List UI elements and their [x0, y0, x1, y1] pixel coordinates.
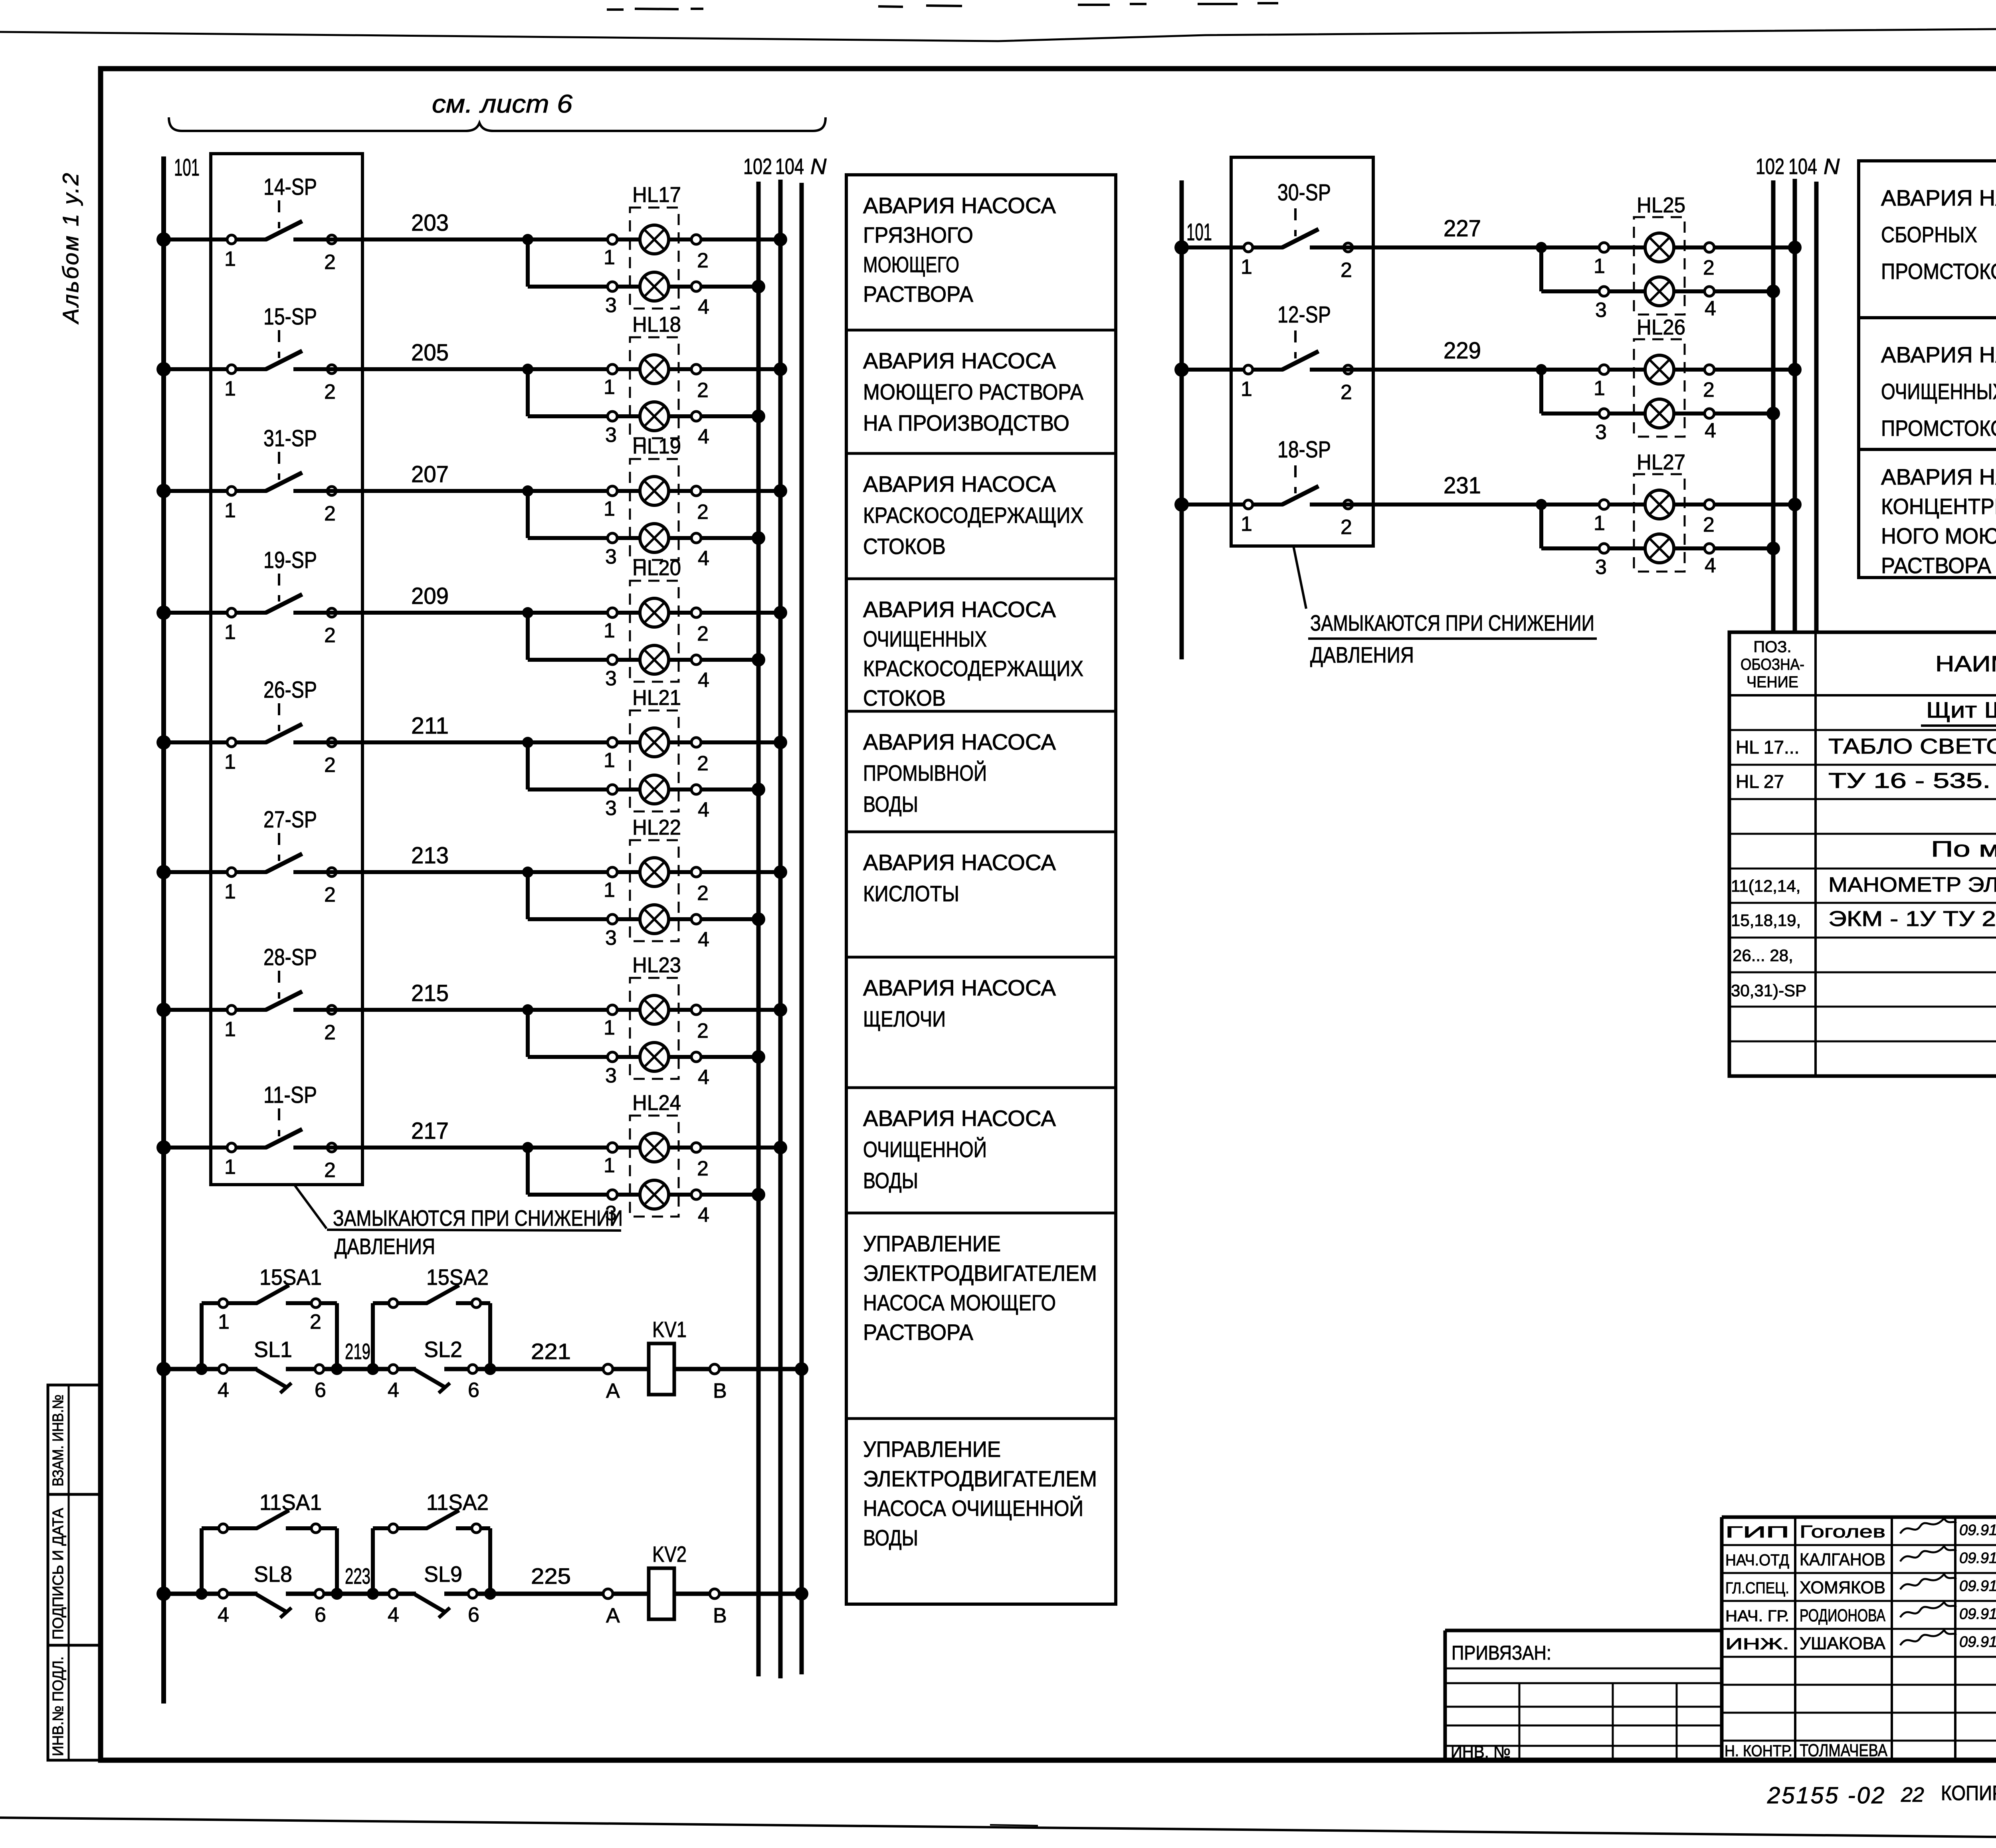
switch 15SA1: [202, 1264, 337, 1334]
svg-text:Н. КОНТР.: Н. КОНТР.: [1725, 1742, 1792, 1760]
table row: 26...28: [1733, 946, 1793, 965]
junction on bus 104 row 217: [774, 1141, 787, 1154]
svg-text:АВАРИЯ НАСОСА: АВАРИЯ НАСОСА: [863, 850, 1056, 875]
svg-text:2: 2: [1341, 516, 1352, 539]
svg-text:HL17: HL17: [632, 183, 681, 207]
pressure switch contact 15-SP: [164, 304, 336, 404]
wire 207: [328, 461, 780, 497]
svg-text:ОЧИЩЕННЫХ: ОЧИЩЕННЫХ: [863, 626, 987, 651]
note: замыкаются при снижении давления (left): [327, 1205, 623, 1259]
junction on bus 101 row 209: [156, 605, 171, 620]
svg-text:HL26: HL26: [1637, 315, 1685, 339]
svg-text:РАСТВОРА: РАСТВОРА: [1881, 553, 1992, 578]
svg-text:РАСТВОРА: РАСТВОРА: [863, 281, 974, 307]
svg-text:ПРОМЫВНОЙ: ПРОМЫВНОЙ: [863, 760, 987, 785]
svg-text:АВАРИЯ НАСОСА: АВАРИЯ НАСОСА: [863, 348, 1056, 373]
svg-text:МОЮЩЕГО: МОЮЩЕГО: [863, 252, 959, 277]
svg-text:ВОДЫ: ВОДЫ: [863, 1525, 918, 1550]
svg-text:1: 1: [224, 377, 236, 400]
svg-text:ПОДПИСЬ И ДАТА: ПОДПИСЬ И ДАТА: [50, 1508, 67, 1640]
svg-text:ЭЛЕКТРОДВИГАТЕЛЕМ: ЭЛЕКТРОДВИГАТЕЛЕМ: [863, 1466, 1097, 1491]
svg-text:217: 217: [411, 1118, 449, 1144]
svg-text:203: 203: [411, 210, 449, 236]
svg-text:6: 6: [315, 1379, 326, 1402]
wire lamp branch lower HL20: [528, 613, 765, 667]
svg-text:4: 4: [388, 1379, 399, 1402]
annotation column (left) frame: [846, 175, 1116, 1604]
svg-text:1: 1: [224, 621, 236, 644]
wire 215: [328, 980, 780, 1015]
svg-text:221: 221: [531, 1339, 571, 1364]
parallel branch frame 1 rung KV2: [196, 1528, 343, 1600]
level switch contact SL8: [218, 1561, 326, 1626]
svg-text:227: 227: [1444, 216, 1481, 241]
junction on bus 104 row 231: [1788, 498, 1802, 511]
switch 11SA2: [373, 1490, 490, 1533]
svg-text:1: 1: [1594, 512, 1605, 535]
labels 102 104 N (left): [743, 154, 827, 179]
wire lamp branch lower HL21: [528, 742, 765, 796]
junction on bus 104 row 227: [1788, 241, 1802, 254]
junction on bus N rung KV1: [795, 1362, 808, 1376]
svg-text:4: 4: [698, 669, 709, 692]
signal lamp HL24: [604, 1091, 709, 1227]
svg-text:3: 3: [605, 423, 617, 447]
svg-text:3: 3: [605, 294, 617, 317]
label Привязан:: [1451, 1642, 1551, 1664]
signal lamp HL22: [604, 815, 709, 951]
svg-text:1: 1: [1594, 255, 1605, 278]
svg-text:3: 3: [605, 667, 617, 690]
svg-text:1: 1: [1594, 377, 1605, 400]
svg-text:АВАРИЯ НАСОСА: АВАРИЯ НАСОСА: [1881, 185, 1996, 210]
svg-text:SL9: SL9: [424, 1561, 462, 1587]
svg-text:ТАБЛО СВЕТОВОЕ ТСБ: ТАБЛО СВЕТОВОЕ ТСБ: [1828, 734, 1996, 758]
svg-text:HL18: HL18: [632, 313, 681, 336]
pressure switch enclosure box (left): [211, 154, 362, 1185]
svg-text:РАСТВОРА: РАСТВОРА: [863, 1320, 974, 1345]
signal lamp HL20: [604, 556, 709, 692]
wire 209: [328, 583, 780, 618]
junction on bus 101 row 213: [156, 865, 171, 879]
svg-text:101: 101: [174, 154, 200, 181]
signal lamp HL19: [604, 434, 709, 570]
svg-text:4: 4: [1705, 554, 1716, 577]
svg-text:2: 2: [697, 501, 709, 524]
junction on bus N rung KV2: [795, 1587, 808, 1601]
annotation text box L10: УПРАВЛЕНИЕ ...: [863, 1436, 1097, 1550]
svg-text:АВАРИЯ НАСОСА: АВАРИЯ НАСОСА: [863, 729, 1056, 754]
svg-text:B: B: [713, 1379, 727, 1403]
svg-text:СТОКОВ: СТОКОВ: [863, 534, 946, 559]
label 101 (left bus): [174, 154, 200, 181]
sidebar label: Взам. инв.№: [50, 1395, 67, 1486]
svg-text:см. лист 6: см. лист 6: [432, 89, 572, 118]
wire lamp branch lower HL19: [528, 491, 765, 545]
svg-text:14-SP: 14-SP: [263, 174, 317, 200]
table row: HL17 Табло световое ТСБ: [1736, 734, 1996, 758]
junction on bus 101 rung KV1: [156, 1362, 171, 1376]
wire rung KV2 main: [164, 1592, 802, 1596]
svg-text:КРАСКОСОДЕРЖАЩИХ: КРАСКОСОДЕРЖАЩИХ: [863, 656, 1083, 681]
scan edge bottom line: [0, 1818, 1996, 1842]
svg-text:231: 231: [1444, 473, 1481, 499]
pressure switch contact 31-SP: [164, 425, 336, 525]
handwritten: 25155-02 22 Копировал: Сырова: [1767, 1782, 1996, 1808]
svg-text:2: 2: [324, 883, 336, 906]
svg-text:НАЧ.ОТД: НАЧ.ОТД: [1725, 1551, 1789, 1569]
svg-text:4: 4: [388, 1603, 399, 1626]
relay coil KV2: [649, 1541, 687, 1619]
svg-text:1: 1: [604, 376, 615, 399]
svg-text:KV1: KV1: [652, 1317, 687, 1342]
level switch contact SL2: [388, 1337, 479, 1402]
annotation text box L8: АВАРИЯ НАСОСА ...: [863, 1106, 1056, 1193]
svg-text:213: 213: [411, 843, 449, 869]
svg-text:12-SP: 12-SP: [1277, 302, 1331, 328]
svg-text:1: 1: [604, 1154, 615, 1177]
svg-text:229: 229: [1444, 338, 1481, 364]
svg-text:1: 1: [1241, 378, 1252, 401]
parallel branch frame 1 rung KV1: [196, 1303, 343, 1375]
junction on bus 104 row 205: [774, 362, 787, 376]
junction on bus 101 rung KV2: [156, 1587, 171, 1601]
junction on bus 101 row 227: [1174, 240, 1189, 255]
svg-text:HL 17...: HL 17...: [1736, 737, 1799, 758]
svg-text:1: 1: [224, 1018, 236, 1041]
svg-text:HL24: HL24: [632, 1091, 681, 1115]
relay coil KV1: [649, 1317, 687, 1395]
svg-text:НАСОСА ОЧИЩЕННОЙ: НАСОСА ОЧИЩЕННОЙ: [863, 1496, 1083, 1521]
svg-text:102: 102: [1756, 154, 1784, 179]
svg-text:2: 2: [697, 882, 709, 905]
svg-text:3: 3: [1595, 556, 1607, 579]
wire lamp branch lower HL22: [528, 872, 765, 926]
junction on bus 101 row 229: [1174, 362, 1189, 377]
signal lamp HL27: [1594, 450, 1716, 579]
terminal A rung KV2: [603, 1589, 620, 1627]
wire 225: [531, 1563, 571, 1589]
svg-text:ПРОМСТОКОВ: ПРОМСТОКОВ: [1881, 416, 1996, 441]
svg-text:2: 2: [1341, 259, 1352, 282]
wire lamp branch lower HL27: [1541, 505, 1780, 555]
pressure switch contact 14-SP: [164, 174, 336, 274]
svg-text:HL22: HL22: [632, 815, 681, 839]
svg-text:ВОДЫ: ВОДЫ: [863, 1168, 918, 1193]
svg-text:223: 223: [345, 1563, 370, 1589]
annotation text box L6: АВАРИЯ НАСОСА ...: [863, 850, 1056, 906]
junction on bus 101 row 203: [156, 232, 171, 247]
svg-text:МАНОМЕТР ЭЛЕКТРОКОНТАКТНЫЙ: МАНОМЕТР ЭЛЕКТРОКОНТАКТНЫЙ: [1828, 873, 1996, 896]
svg-text:ИНВ. №: ИНВ. №: [1451, 1742, 1511, 1762]
junction on bus 101 row 207: [156, 484, 171, 498]
signature row ГЛ.СПЕЦ. ХОМЯКОВ: [1725, 1574, 1996, 1597]
scan edge top line: [0, 3, 1996, 41]
signature row ГИП Гоголев: [1725, 1518, 1996, 1541]
svg-text:B: B: [713, 1604, 727, 1627]
svg-text:АВАРИЯ НАСОСА: АВАРИЯ НАСОСА: [863, 975, 1056, 1000]
wire 203: [328, 210, 780, 245]
annotation text box L1: АВАРИЯ НАСОСА ...: [863, 193, 1056, 307]
svg-text:1: 1: [604, 497, 615, 520]
junction on bus 101 row 215: [156, 1003, 171, 1017]
svg-text:1: 1: [224, 880, 236, 903]
svg-text:НАСОСА МОЮЩЕГО: НАСОСА МОЮЩЕГО: [863, 1290, 1056, 1315]
svg-text:09.91: 09.91: [1959, 1606, 1996, 1622]
svg-text:2: 2: [310, 1310, 321, 1334]
svg-text:УПРАВЛЕНИЕ: УПРАВЛЕНИЕ: [863, 1231, 1001, 1256]
wire 227: [1345, 216, 1795, 253]
svg-text:УШАКОВА: УШАКОВА: [1800, 1634, 1886, 1653]
svg-text:2: 2: [1703, 256, 1715, 279]
svg-text:3: 3: [1595, 299, 1607, 322]
junction on bus 104 row 207: [774, 484, 787, 498]
svg-text:1: 1: [1241, 512, 1252, 536]
svg-text:ИНЖ.: ИНЖ.: [1725, 1635, 1789, 1653]
annotation text box L2: АВАРИЯ НАСОСА ...: [863, 348, 1084, 435]
pressure switch contact 11-SP: [164, 1082, 336, 1182]
svg-text:N: N: [810, 154, 827, 179]
junction on bus 101 row 205: [156, 362, 171, 376]
svg-text:ДАВЛЕНИЯ: ДАВЛЕНИЯ: [1310, 642, 1414, 667]
svg-text:ПРОМСТОКОВ: ПРОМСТОКОВ: [1881, 259, 1996, 284]
parallel branch frame 2 rung KV2: [367, 1528, 496, 1600]
svg-text:18-SP: 18-SP: [1277, 437, 1331, 463]
wire lamp branch lower HL17: [528, 239, 765, 293]
svg-text:3: 3: [605, 926, 617, 950]
label Инв. №: [1451, 1742, 1511, 1762]
svg-text:ЗАМЫКАЮТСЯ ПРИ СНИЖЕНИИ: ЗАМЫКАЮТСЯ ПРИ СНИЖЕНИИ: [1310, 610, 1594, 635]
svg-text:4: 4: [698, 295, 709, 319]
svg-text:2: 2: [324, 502, 336, 525]
level switch contact SL9: [388, 1561, 479, 1626]
signal lamp HL23: [604, 953, 709, 1089]
junction on bus 104 row 203: [774, 233, 787, 246]
svg-text:11-SP: 11-SP: [263, 1082, 317, 1108]
svg-text:HL20: HL20: [632, 556, 681, 580]
title block signature table grid: [1722, 1517, 1996, 1760]
svg-text:211: 211: [411, 713, 449, 739]
table row: Щит ЩА2: [1921, 697, 1996, 726]
wire lamp branch lower HL24: [528, 1148, 765, 1201]
wire 231: [1345, 473, 1795, 510]
wire 217: [328, 1118, 780, 1153]
svg-text:6: 6: [315, 1603, 326, 1626]
table row: Манометр электроконтактный: [1731, 873, 1996, 896]
svg-text:АВАРИЯ НАСОСА: АВАРИЯ НАСОСА: [1881, 342, 1996, 367]
svg-text:1: 1: [604, 619, 615, 642]
svg-text:НОГО МОЮЩЕГО: НОГО МОЮЩЕГО: [1881, 523, 1996, 548]
svg-text:2: 2: [324, 754, 336, 777]
svg-text:2: 2: [1703, 513, 1715, 536]
wire lamp branch lower HL25: [1541, 247, 1780, 298]
annotation text box L3: АВАРИЯ НАСОСА ...: [863, 471, 1083, 559]
svg-text:УПРАВЛЕНИЕ: УПРАВЛЕНИЕ: [863, 1436, 1001, 1462]
svg-text:2: 2: [697, 752, 709, 775]
annotation text box L9: УПРАВЛЕНИЕ ...: [863, 1231, 1097, 1345]
svg-text:15-SP: 15-SP: [263, 304, 317, 330]
svg-text:31-SP: 31-SP: [263, 425, 317, 451]
svg-text:6: 6: [468, 1379, 479, 1402]
svg-text:ОБОЗНА-: ОБОЗНА-: [1741, 656, 1804, 673]
svg-text:22: 22: [1901, 1783, 1924, 1806]
svg-text:2: 2: [324, 380, 336, 404]
parts list table frame: [1729, 632, 1996, 1076]
svg-text:Щит ЩА2: Щит ЩА2: [1926, 697, 1996, 722]
junction on bus 101 row 217: [156, 1140, 171, 1155]
svg-text:2: 2: [697, 1157, 709, 1180]
note: см. лист 6: [432, 89, 572, 118]
wire lamp branch lower HL26: [1541, 370, 1780, 420]
annotation text box L5: АВАРИЯ НАСОСА ...: [863, 729, 1056, 817]
svg-text:HL23: HL23: [632, 953, 681, 977]
annotation text box R3: АВАРИЯ НАСОСА ...: [1881, 464, 1996, 578]
svg-text:КОПИРОВАЛ: СЫРОВА, Спрос.: КОПИРОВАЛ: СЫРОВА, Спрос.: [1941, 1782, 1996, 1805]
svg-text:1: 1: [224, 247, 236, 271]
terminal A rung KV1: [603, 1364, 620, 1403]
svg-text:HL21: HL21: [632, 686, 681, 710]
album note: Альбом 1 у.2: [58, 171, 83, 324]
svg-text:КАЛГАНОВ: КАЛГАНОВ: [1800, 1550, 1885, 1569]
svg-text:ГРЯЗНОГО: ГРЯЗНОГО: [863, 222, 973, 247]
svg-text:28-SP: 28-SP: [263, 944, 317, 970]
svg-text:КОНЦЕНТРИРОВАН-: КОНЦЕНТРИРОВАН-: [1881, 494, 1996, 519]
svg-text:4: 4: [698, 425, 709, 448]
svg-text:30,31)-SP: 30,31)-SP: [1731, 981, 1806, 1000]
svg-text:27-SP: 27-SP: [263, 807, 317, 833]
svg-text:A: A: [606, 1379, 620, 1403]
svg-text:KV2: KV2: [652, 1541, 687, 1567]
svg-text:15SA2: 15SA2: [426, 1264, 489, 1290]
svg-text:1: 1: [1241, 255, 1252, 279]
svg-text:HL19: HL19: [632, 434, 681, 458]
wire 213: [328, 843, 780, 878]
svg-text:26-SP: 26-SP: [263, 677, 317, 703]
svg-text:КРАСКОСОДЕРЖАЩИХ: КРАСКОСОДЕРЖАЩИХ: [863, 503, 1083, 528]
brace over buses: [169, 117, 826, 131]
svg-text:SL1: SL1: [254, 1337, 292, 1362]
svg-text:2: 2: [697, 622, 709, 645]
svg-text:КИСЛОТЫ: КИСЛОТЫ: [863, 881, 959, 906]
svg-text:ДАВЛЕНИЯ: ДАВЛЕНИЯ: [335, 1234, 435, 1259]
svg-text:По месту: По месту: [1931, 836, 1996, 861]
svg-text:4: 4: [1705, 297, 1716, 320]
signature row НАЧ. ГР. РОДИОНОВА: [1725, 1602, 1996, 1625]
pressure switch contact 30-SP: [1182, 180, 1352, 282]
svg-text:2: 2: [324, 624, 336, 647]
svg-text:2: 2: [324, 1159, 336, 1182]
table header: Наименование: [1935, 651, 1996, 676]
svg-text:РОДИОНОВА: РОДИОНОВА: [1800, 1606, 1885, 1625]
svg-text:НАИМЕНОВАНИЕ: НАИМЕНОВАНИЕ: [1935, 651, 1996, 676]
svg-text:N: N: [1824, 154, 1840, 179]
table row: По месту: [1931, 836, 1996, 861]
svg-text:4: 4: [698, 798, 709, 821]
wire lamp branch lower HL18: [528, 369, 765, 423]
svg-text:4: 4: [698, 1203, 709, 1227]
svg-text:219: 219: [345, 1339, 370, 1364]
annotation column (right) frame: [1859, 161, 1996, 578]
svg-text:225: 225: [531, 1563, 571, 1589]
pressure switch contact 12-SP: [1182, 302, 1352, 404]
annotation text box L4: АВАРИЯ НАСОСА ...: [863, 597, 1083, 710]
switch 11SA1: [202, 1490, 337, 1533]
svg-text:НАЧ. ГР.: НАЧ. ГР.: [1725, 1607, 1789, 1625]
svg-text:АВАРИЯ НАСОСА: АВАРИЯ НАСОСА: [863, 193, 1056, 218]
svg-text:1: 1: [604, 749, 615, 772]
wire 211: [328, 713, 780, 748]
svg-text:ТОЛМАЧЕВА: ТОЛМАЧЕВА: [1800, 1741, 1888, 1760]
signature row Н.КОНТР. Толмачева: [1725, 1741, 1888, 1760]
svg-text:101: 101: [1186, 219, 1212, 245]
svg-text:15SA1: 15SA1: [259, 1264, 322, 1290]
svg-text:3: 3: [605, 797, 617, 820]
svg-text:2: 2: [697, 379, 709, 402]
label 101 (right bus): [1186, 219, 1212, 245]
wire rung KV1 main: [164, 1367, 802, 1371]
svg-text:АВАРИЯ НАСОСА: АВАРИЯ НАСОСА: [863, 471, 1056, 497]
svg-text:09.91: 09.91: [1959, 1522, 1996, 1539]
sidebar frame boxes: [48, 1385, 101, 1760]
buses 102 104 N (right): [1773, 179, 1816, 631]
svg-text:09.91: 09.91: [1959, 1634, 1996, 1650]
junction on bus 104 row 213: [774, 865, 787, 879]
terminal B rung KV1: [710, 1364, 727, 1403]
svg-text:SL8: SL8: [254, 1561, 292, 1587]
svg-text:ОЧИЩЕННОЙ: ОЧИЩЕННОЙ: [863, 1137, 987, 1162]
pressure switch contact 18-SP: [1182, 437, 1352, 539]
svg-text:2: 2: [1703, 378, 1715, 402]
svg-text:2: 2: [697, 249, 709, 272]
svg-text:3: 3: [605, 1064, 617, 1087]
svg-text:HL27: HL27: [1637, 450, 1685, 474]
table row: 30,31)-SP: [1731, 981, 1806, 1000]
svg-text:ОЧИЩЕННЫХ: ОЧИЩЕННЫХ: [1881, 379, 1996, 404]
labels 102 104 N (right): [1756, 154, 1840, 179]
svg-text:ИНВ.№ ПОДЛ.: ИНВ.№ ПОДЛ.: [50, 1656, 67, 1756]
svg-text:1: 1: [224, 1155, 236, 1179]
svg-text:215: 215: [411, 980, 449, 1006]
svg-text:6: 6: [468, 1603, 479, 1626]
wire lamp branch lower HL23: [528, 1010, 765, 1064]
signal lamp HL18: [604, 313, 709, 448]
junction on bus 104 row 209: [774, 606, 787, 619]
svg-text:1: 1: [604, 246, 615, 269]
svg-text:НА ПРОИЗВОДСТВО: НА ПРОИЗВОДСТВО: [863, 410, 1069, 435]
svg-text:ВЗАМ. ИНВ.№: ВЗАМ. ИНВ.№: [50, 1395, 67, 1486]
signal lamp HL17: [604, 183, 709, 319]
svg-text:3: 3: [1595, 421, 1607, 444]
svg-text:АВАРИЯ НАСОСА: АВАРИЯ НАСОСА: [863, 1106, 1056, 1131]
svg-text:ЩЕЛОЧИ: ЩЕЛОЧИ: [863, 1006, 946, 1031]
signal lamp HL21: [604, 686, 709, 821]
svg-text:SL2: SL2: [424, 1337, 462, 1362]
svg-text:104: 104: [1788, 154, 1817, 179]
svg-text:HL 27: HL 27: [1736, 771, 1784, 792]
signature row НАЧ.ОТД КАЛГАНОВ: [1725, 1546, 1996, 1569]
svg-text:30-SP: 30-SP: [1277, 180, 1331, 206]
annotation text box R1: АВАРИЯ НАСОСА ...: [1881, 185, 1996, 284]
svg-text:104: 104: [775, 154, 804, 179]
svg-text:ГЛ.СПЕЦ.: ГЛ.СПЕЦ.: [1725, 1579, 1789, 1597]
svg-text:A: A: [606, 1604, 620, 1627]
svg-text:АВАРИЯ НАСОСА: АВАРИЯ НАСОСА: [1881, 464, 1996, 489]
signature row ИНЖ. УШАКОВА: [1725, 1630, 1996, 1653]
svg-text:ГИП: ГИП: [1725, 1524, 1789, 1541]
svg-text:1: 1: [604, 1016, 615, 1039]
node 219: [345, 1339, 370, 1364]
pressure switch enclosure box (right): [1231, 157, 1373, 546]
